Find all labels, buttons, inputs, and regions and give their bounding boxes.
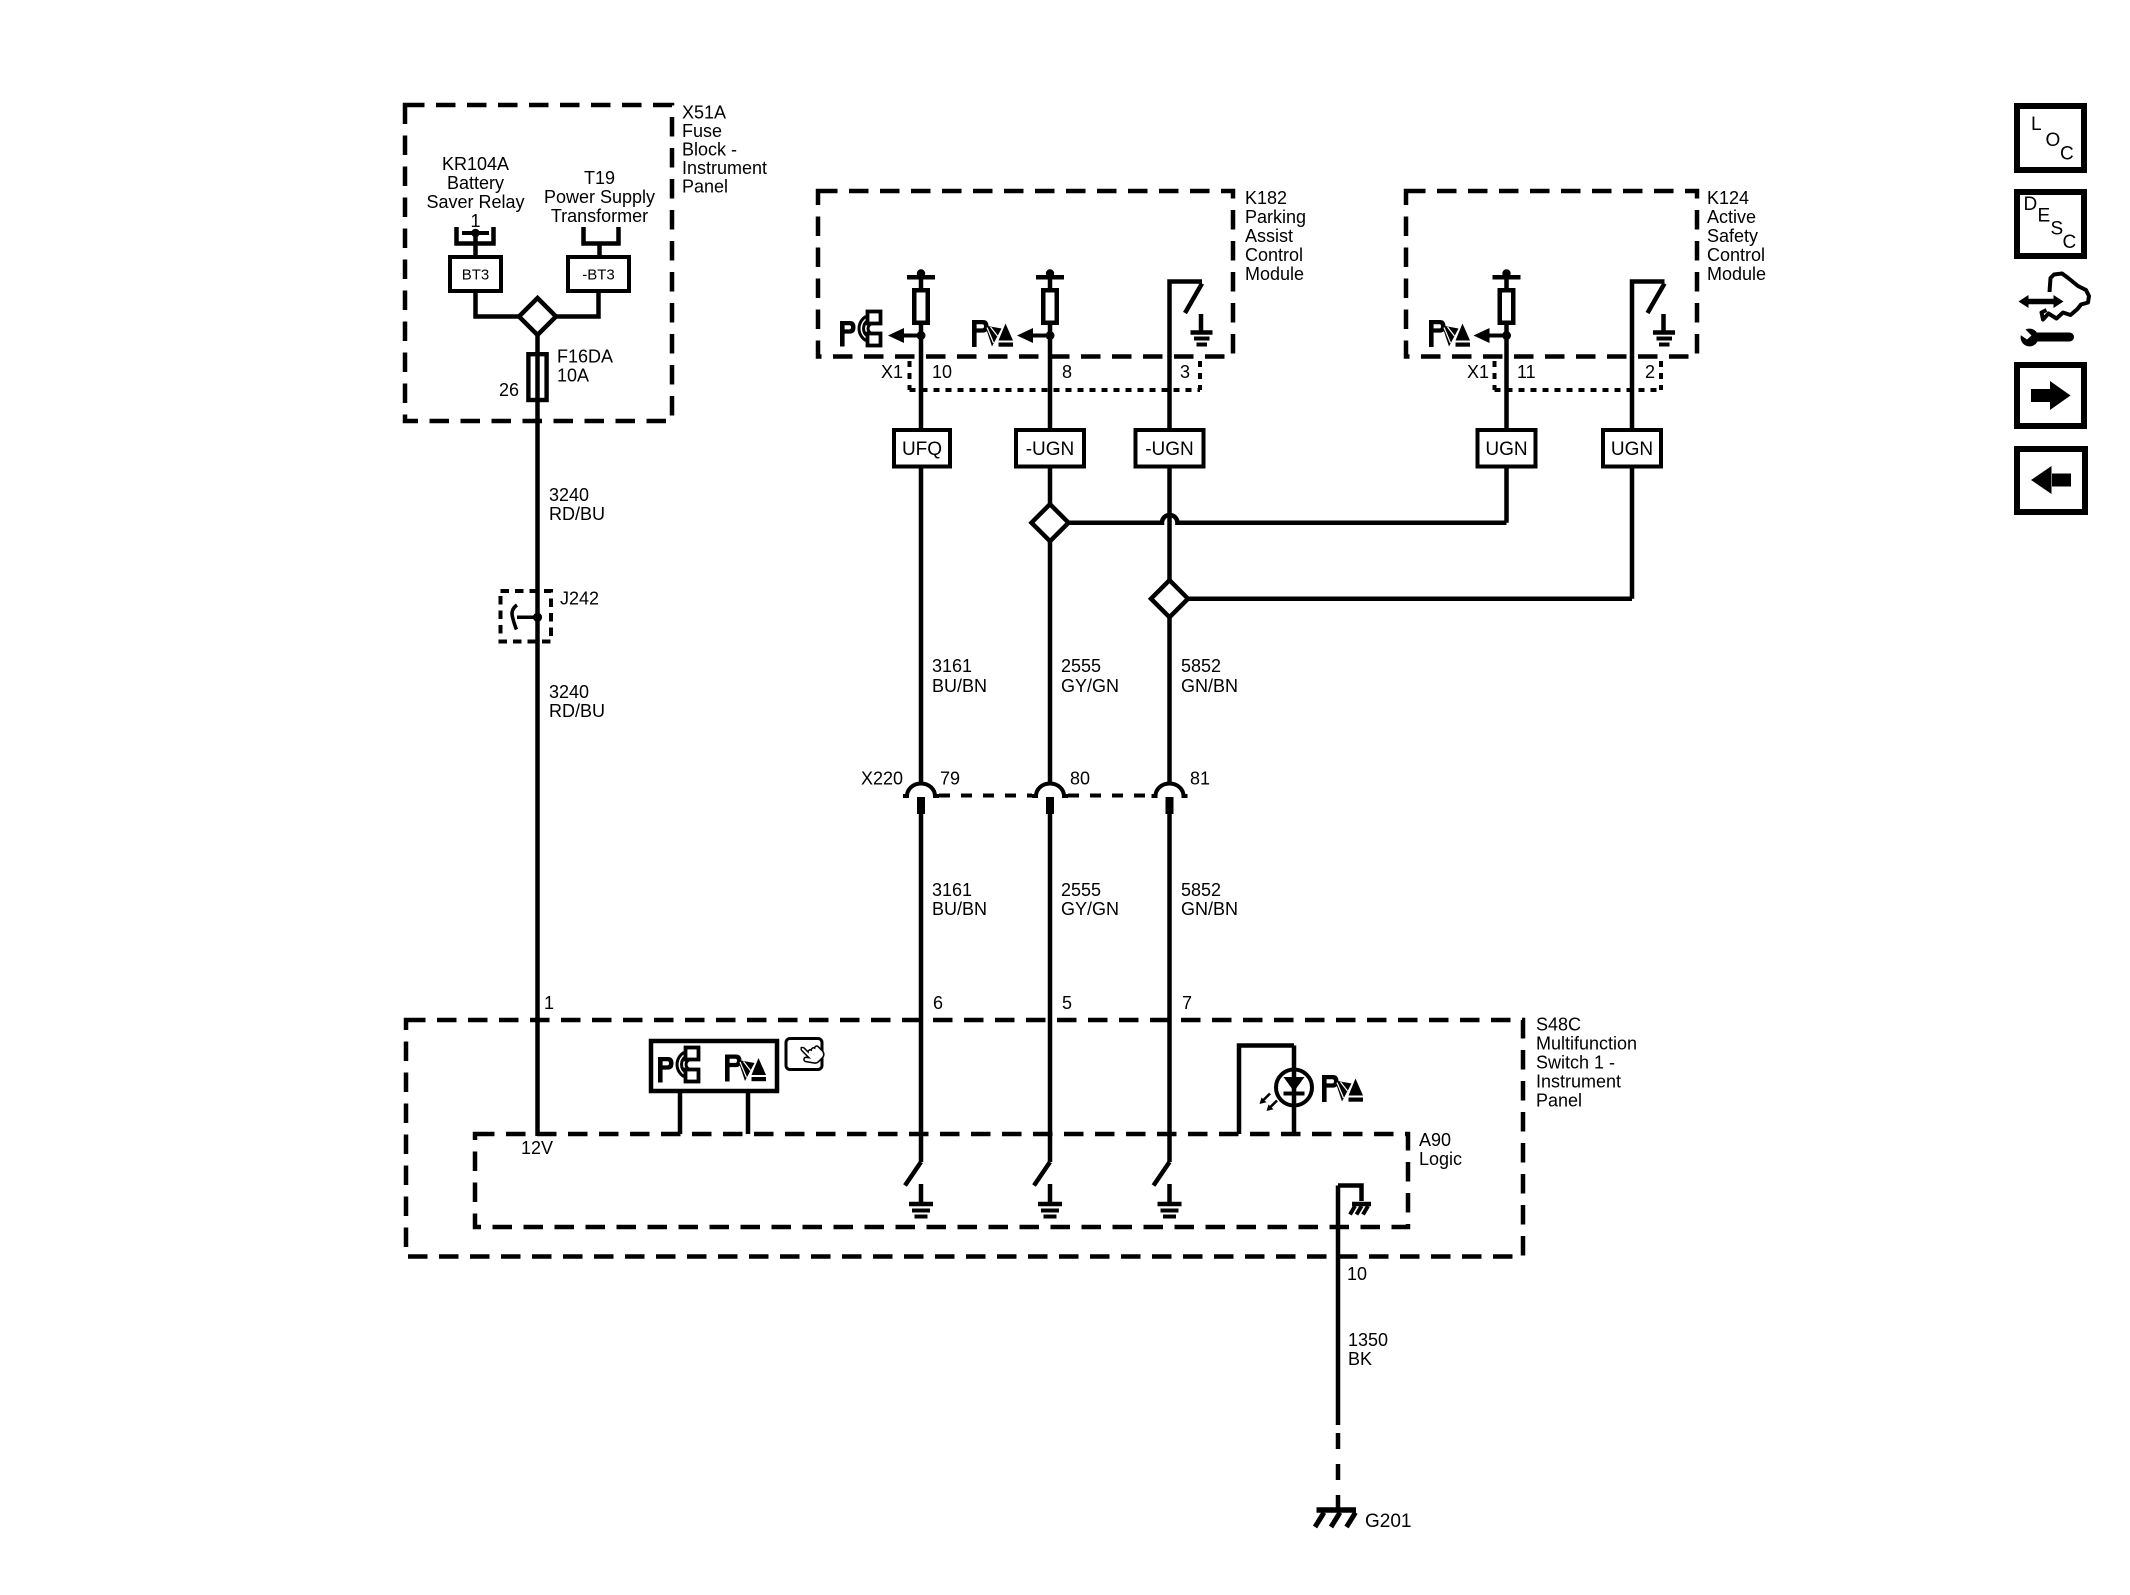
nav icon arrow left [2017,449,2085,512]
svg-text:Parking: Parking [1245,207,1306,227]
svg-text:K182: K182 [1245,188,1287,208]
svg-text:L: L [2031,114,2042,135]
svg-text:Instrument: Instrument [682,158,767,178]
fuse block X51A dashed box [405,105,672,421]
logic ground pin 10 [1338,1186,1371,1215]
svg-text:Battery: Battery [447,173,504,193]
svg-text:Control: Control [1707,245,1765,265]
switch to ground pin 2 (K124) [1632,282,1675,357]
inline connector J242 [501,591,552,642]
svg-text:5852: 5852 [1181,656,1221,676]
wire splice2 to UGN (hops over column 3) [1068,515,1507,523]
svg-text:Safety: Safety [1707,226,1758,246]
svg-text:A90: A90 [1419,1130,1451,1150]
logic block A90 dashed box [475,1134,1408,1227]
wire code box -UGN (pin8) [1016,430,1084,467]
svg-text:12V: 12V [521,1138,553,1158]
transformer T19 bracket symbol [582,227,621,246]
icon park assist sonar (K182) [840,312,881,347]
svg-text:RD/BU: RD/BU [549,701,605,721]
svg-text:J242: J242 [560,589,599,609]
icon park assist cone (K182) [972,320,1013,347]
wire T19 to -BT3 [597,245,602,258]
svg-text:O: O [2046,130,2061,151]
nav icon LOC [2017,106,2084,170]
svg-text:S: S [2051,219,2064,240]
svg-text:1: 1 [544,993,554,1013]
splice diamond on -UGN column 2 [1032,504,1069,541]
svg-text:T19: T19 [584,168,615,188]
wire from diamond through fuse down to multifunction switch [535,334,540,1136]
svg-text:Switch 1 -: Switch 1 - [1536,1052,1615,1072]
switch pin7 to ground [1154,1162,1182,1217]
wire -BT3 down to junction [554,291,599,317]
svg-text:10A: 10A [557,366,589,386]
module K182 dashed box [818,191,1233,357]
svg-text:GN/BN: GN/BN [1181,676,1238,696]
switch to ground pin 3 (K182) [1170,282,1213,357]
wire BT3 down to junction [476,291,522,317]
svg-text:BU/BN: BU/BN [932,676,987,696]
svg-text:1: 1 [470,211,480,231]
wire pin10 down [1336,1186,1341,1426]
svg-text:F16DA: F16DA [557,347,613,367]
splice diamond on -UGN column 3 [1151,580,1188,617]
svg-text:Module: Module [1245,264,1304,284]
connector X1 (K124) pin row [1495,361,1662,390]
svg-text:3161: 3161 [932,880,972,900]
connector X1 (K182) pin row [910,361,1201,390]
svg-text:5852: 5852 [1181,880,1221,900]
svg-text:Panel: Panel [682,176,728,196]
switch pin5 to ground [1034,1162,1062,1217]
svg-text:K124: K124 [1707,188,1749,208]
icon sonar on button [658,1048,699,1083]
svg-text:S48C: S48C [1536,1014,1581,1034]
connector terminal 79 [903,784,939,815]
connector terminal 80 [1032,784,1068,815]
svg-text:Control: Control [1245,245,1303,265]
svg-text:-UGN: -UGN [1145,439,1194,460]
svg-text:Multifunction: Multifunction [1536,1033,1637,1053]
icon cone on button [725,1055,766,1082]
svg-text:79: 79 [940,769,960,789]
wire col3 X220 to S48C [1167,813,1172,1162]
svg-text:3240: 3240 [549,485,589,505]
svg-text:D: D [2024,194,2038,215]
svg-text:Panel: Panel [1536,1090,1582,1110]
dashed ground lead [1336,1433,1341,1508]
wire code box UFQ [894,430,950,467]
svg-text:G201: G201 [1365,1511,1411,1532]
fuse F16DA 10A [528,354,546,400]
resistor output pin 8 (K182) [1017,269,1064,430]
terminal BT3 [450,257,501,291]
wire -UGN column 3 continues below diamond [1167,617,1172,786]
svg-text:5: 5 [1062,993,1072,1013]
svg-text:26: 26 [499,380,519,400]
wire pin3 down through connector [1167,356,1172,582]
svg-text:10: 10 [932,362,952,382]
wire splice3 to UGN2 [1187,596,1632,601]
svg-text:8: 8 [1062,362,1072,382]
icon park assist cone (K124) [1429,320,1470,347]
wire col1 X220 to S48C [919,813,924,1162]
svg-text:UGN: UGN [1485,439,1527,460]
svg-text:KR104A: KR104A [442,154,509,174]
resistor output pin 11 (K124) [1474,269,1521,430]
svg-text:Assist: Assist [1245,226,1293,246]
relay KR104A contact symbol [455,227,496,246]
svg-text:3161: 3161 [932,656,972,676]
svg-text:Instrument: Instrument [1536,1071,1621,1091]
svg-text:C: C [2060,144,2074,165]
svg-text:Fuse: Fuse [682,121,722,141]
svg-text:X1: X1 [1467,362,1489,382]
svg-text:Logic: Logic [1419,1149,1462,1169]
svg-text:3240: 3240 [549,682,589,702]
svg-text:6: 6 [933,993,943,1013]
wire code box UGN (pin11) [1478,430,1536,467]
terminal -BT3 [568,257,629,291]
wire relay to BT3 [473,233,478,258]
wire col2 X220 to S48C [1048,813,1053,1162]
svg-text:2: 2 [1645,362,1655,382]
svg-text:BT3: BT3 [462,267,490,284]
svg-text:Power Supply: Power Supply [544,187,655,207]
svg-text:GY/GN: GY/GN [1061,899,1119,919]
svg-text:10: 10 [1347,1264,1367,1284]
svg-text:11: 11 [1517,362,1536,382]
svg-text:UGN: UGN [1611,439,1653,460]
module S48C dashed box [406,1020,1523,1257]
svg-text:81: 81 [1190,769,1210,789]
svg-text:RD/BU: RD/BU [549,504,605,524]
wire -UGN column 2 [1048,430,1053,506]
svg-text:C: C [2063,232,2077,253]
svg-text:Saver Relay: Saver Relay [426,192,524,212]
button stubs to logic [678,1091,683,1134]
svg-text:X220: X220 [861,769,903,789]
switch pin6 to ground [905,1162,933,1217]
module K124 dashed box [1406,191,1697,357]
resistor output pin 10 (K182) [888,269,935,430]
svg-text:Module: Module [1707,264,1766,284]
svg-text:GN/BN: GN/BN [1181,899,1238,919]
svg-text:Active: Active [1707,207,1756,227]
wire UGN column 4 [1504,430,1509,523]
svg-text:7: 7 [1182,993,1192,1013]
svg-text:-BT3: -BT3 [582,267,615,284]
svg-text:E: E [2038,206,2051,227]
junction diamond [519,298,556,335]
wire code box -UGN (pin3) [1136,430,1204,467]
svg-text:X1: X1 [881,362,903,382]
wire UFQ column [919,430,924,785]
svg-text:80: 80 [1070,769,1090,789]
LED indicator circuit [1239,1046,1312,1135]
nav icon arrow right [2017,365,2084,426]
nav icon vehicle/wrench [2016,274,2090,347]
svg-text:BK: BK [1348,1349,1372,1369]
svg-text:2555: 2555 [1061,880,1101,900]
svg-text:3: 3 [1180,362,1190,382]
svg-text:Transformer: Transformer [551,206,648,226]
svg-text:-UGN: -UGN [1026,439,1075,460]
svg-text:GY/GN: GY/GN [1061,676,1119,696]
svg-text:Block -: Block - [682,139,737,159]
svg-text:UFQ: UFQ [902,439,942,460]
svg-text:X51A: X51A [682,102,726,122]
wire pin2 down to UGN [1630,356,1635,599]
wire code box UGN (pin2) [1603,430,1661,467]
icon press hand [786,1039,826,1070]
ground G201 [1315,1510,1356,1527]
icon cone next to LED [1322,1075,1363,1102]
svg-text:1350: 1350 [1348,1330,1388,1350]
wire column2 below splice [1048,540,1053,785]
svg-text:BU/BN: BU/BN [932,899,987,919]
svg-text:2555: 2555 [1061,656,1101,676]
connector terminal 81 [1152,784,1188,815]
nav icon DESC [2017,192,2084,256]
switch button with icons [651,1041,777,1091]
